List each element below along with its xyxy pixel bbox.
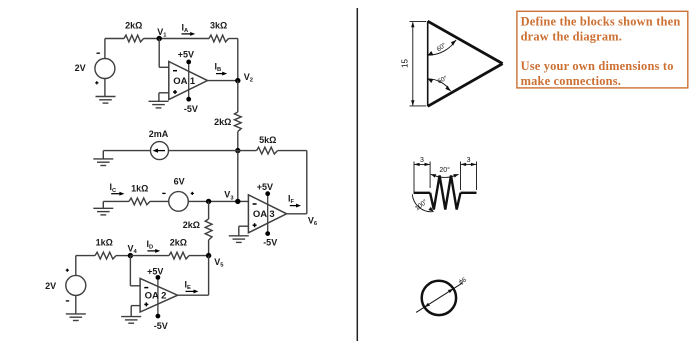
divider line xyxy=(356,8,358,341)
wire V4 to 2k xyxy=(130,255,169,257)
svg-text:OA 1: OA 1 xyxy=(173,76,196,87)
label V1 xyxy=(157,27,167,39)
svg-text:2kΩ: 2kΩ xyxy=(125,21,142,31)
dimension extension lines right 3 xyxy=(461,162,477,191)
circle block xyxy=(422,281,456,315)
current label I_E xyxy=(185,279,192,291)
voltage source 2V (top) xyxy=(95,59,115,79)
minus sign of 2V top source xyxy=(97,52,100,54)
svg-text:+5V: +5V xyxy=(178,49,194,59)
wire OA2 + input to ground xyxy=(131,306,140,317)
triangle block left edge xyxy=(427,21,429,106)
voltage source 6V xyxy=(169,192,189,212)
label V2 xyxy=(244,72,253,84)
junction node (2k/5k/2mA) xyxy=(235,148,240,153)
label V3 xyxy=(224,190,234,202)
minus sign of 6V source xyxy=(162,192,165,194)
ground under 2V bottom source xyxy=(66,314,86,321)
svg-text:OA 2: OA 2 xyxy=(145,291,167,302)
wire 3k to corner xyxy=(229,38,238,40)
label 1k&#937; (IC row) xyxy=(131,183,148,193)
current arrow I_B xyxy=(216,72,227,76)
svg-text:Use your own dimensions to: Use your own dimensions to xyxy=(521,59,674,73)
wire 1k to V4 xyxy=(116,255,130,257)
+5V/-5V supply line of OA1 xyxy=(188,62,190,99)
dimension extension line bottom (triangle) xyxy=(410,105,427,107)
wire OA1 + input to ground xyxy=(159,93,169,102)
resistor 3k&#937; xyxy=(209,35,229,42)
svg-text:2kΩ: 2kΩ xyxy=(183,220,200,230)
label 2V (top) xyxy=(75,63,86,73)
svg-text:5kΩ: 5kΩ xyxy=(259,135,276,145)
op-amp OA1 xyxy=(169,62,208,100)
dimension label 15 xyxy=(401,59,410,68)
-5V pin dot of OA1 xyxy=(186,97,191,102)
label OA 1 xyxy=(173,76,196,87)
svg-text:-5V: -5V xyxy=(184,104,198,114)
+5V pin dot of OA3 xyxy=(265,191,270,196)
svg-text:2V: 2V xyxy=(75,63,86,73)
label 2mA xyxy=(149,129,169,139)
instruction text xyxy=(521,14,681,88)
ground at OA3 + input xyxy=(229,236,249,243)
current arrow I_D xyxy=(147,249,160,253)
label 2V (bottom) xyxy=(45,281,56,291)
wire V1 down to OA1 inverting input xyxy=(159,39,169,68)
current label I_C xyxy=(110,182,118,194)
label V6 xyxy=(308,215,318,227)
node V2 xyxy=(235,78,240,83)
+5V pin dot of OA2 xyxy=(156,275,161,280)
label +5V of OA1 xyxy=(178,49,194,59)
wire IC ground to 1k xyxy=(103,201,129,208)
wire top-left from 2V source to resistor 2k xyxy=(105,38,124,40)
plus sign of 6V source xyxy=(191,192,194,195)
resistor block right lead xyxy=(461,192,477,194)
resistor block zigzag xyxy=(430,176,460,210)
angle label 60 deg (top) xyxy=(435,41,448,53)
wire 2k resistor to junction xyxy=(237,132,239,151)
wire junction down to V3 xyxy=(237,151,239,202)
current label I_A xyxy=(182,23,190,35)
diameter line of circle xyxy=(416,283,462,313)
wire 6V to OA3 input (through junctions) xyxy=(188,200,249,202)
wire V4 down to OA2 inverting input xyxy=(130,256,140,286)
wire OA2 output up to V5 xyxy=(178,256,209,296)
+5V/-5V supply line of OA3 xyxy=(267,194,269,234)
wire 2mA source to ground stem xyxy=(103,151,150,159)
+5V pin dot of OA1 xyxy=(186,60,191,65)
resistor 2k&#937; (top left) xyxy=(124,35,144,42)
op-amp OA3 xyxy=(248,195,286,233)
dimension label 3 (right) xyxy=(467,157,471,164)
svg-text:2V: 2V xyxy=(45,281,56,291)
current label I_B xyxy=(215,61,222,73)
resistor block left lead xyxy=(414,192,430,194)
ground at IC input xyxy=(93,208,113,215)
label 2k&#937; (vertical upper) xyxy=(214,117,231,127)
wire junction down to 2k (lower vertical) xyxy=(208,201,210,219)
triangle block top edge xyxy=(428,21,503,63)
dimension label 3 (left) xyxy=(420,157,424,164)
label +5V of OA3 xyxy=(257,182,273,192)
wire corner down to V6 xyxy=(306,151,308,214)
svg-text:1kΩ: 1kΩ xyxy=(96,238,113,248)
resistor 2k&#937; (vertical, V2 to junction) xyxy=(234,112,241,132)
diameter label phi6 xyxy=(458,276,468,286)
wire junction to 5k xyxy=(238,150,257,152)
angle label 20 deg xyxy=(439,166,450,174)
ground left of 2mA source xyxy=(93,159,113,166)
wire junction to 2mA source xyxy=(169,150,238,152)
label 3k&#937; xyxy=(210,21,227,31)
svg-text:2kΩ: 2kΩ xyxy=(214,117,231,127)
svg-text:make connections.: make connections. xyxy=(521,74,621,88)
label 6V xyxy=(174,176,185,186)
current label I_F xyxy=(288,193,295,205)
diameter arrowhead lower left xyxy=(424,303,430,307)
svg-text:Define the blocks shown then: Define the blocks shown then xyxy=(521,14,681,28)
wire 2k to V5 xyxy=(208,240,210,256)
current label I_D xyxy=(147,239,154,251)
angle arc 100 deg (lead to zigzag) xyxy=(412,194,433,211)
label OA 3 xyxy=(253,209,275,220)
dimension extension lines left 3 xyxy=(414,162,430,195)
current arrow I_C xyxy=(111,192,124,196)
wire OA1 output to V2 xyxy=(208,80,238,82)
node V5 xyxy=(206,253,211,258)
op-amp OA2 xyxy=(140,278,178,312)
current arrow I_A xyxy=(182,32,196,36)
label V4 xyxy=(128,243,138,255)
wire 2V bottom to ground xyxy=(75,295,77,314)
node V3 xyxy=(235,199,240,204)
current arrow I_F xyxy=(290,204,301,208)
wire 2V to top wire xyxy=(104,39,106,59)
svg-text:3kΩ: 3kΩ xyxy=(210,21,227,31)
+5V/-5V supply line of OA2 xyxy=(157,277,159,316)
angle arc 60 deg (top corner) xyxy=(428,40,456,55)
resistor 5k&#937; xyxy=(257,147,278,154)
angle arc 60 deg (bottom corner) xyxy=(428,79,451,91)
label OA 2 xyxy=(145,291,167,302)
svg-text:-5V: -5V xyxy=(154,321,168,331)
current arrow I_E xyxy=(186,289,199,293)
wire 2V source to ground xyxy=(104,79,106,97)
svg-text:+5V: +5V xyxy=(147,266,163,276)
wire 1k to 6V source xyxy=(150,200,169,202)
label +5V of OA2 xyxy=(147,266,163,276)
label V5 xyxy=(214,257,224,269)
voltage source 2V (bottom) xyxy=(66,275,86,295)
dimension line 15 (triangle height) xyxy=(411,22,414,106)
label -5V of OA2 xyxy=(154,321,168,331)
wire 5k to corner xyxy=(278,150,307,152)
svg-text:1kΩ: 1kΩ xyxy=(131,183,148,193)
svg-text:3: 3 xyxy=(467,157,471,164)
label -5V of OA3 xyxy=(263,237,277,247)
label 2k&#937; (top left) xyxy=(125,21,142,31)
svg-text:20°: 20° xyxy=(439,166,450,174)
triangle block bottom edge xyxy=(428,64,503,107)
resistor 2k&#937; (vertical, to V5) xyxy=(205,219,212,240)
dimension line 3 (right lead) xyxy=(461,163,477,166)
wire corner down to V2 xyxy=(237,39,239,81)
label -5V of OA1 xyxy=(184,104,198,114)
minus sign of 2V bottom source xyxy=(66,300,69,302)
wire OA3 + input to ground xyxy=(239,226,249,236)
current source 2mA xyxy=(151,142,169,160)
dimension line 3 (left lead) xyxy=(414,163,430,166)
-5V pin dot of OA2 xyxy=(156,314,161,319)
node V4 xyxy=(128,253,133,258)
svg-text:6V: 6V xyxy=(174,176,185,186)
wire OA3 output to V6 corner xyxy=(287,213,307,215)
plus sign of 2V top source xyxy=(95,81,98,84)
svg-text:15: 15 xyxy=(401,59,410,68)
wire V2 down to 2k resistor xyxy=(237,81,239,112)
wire V1 segment xyxy=(144,38,210,40)
ground at OA2 + input xyxy=(121,317,141,324)
resistor 1k&#937; (IC row) xyxy=(129,198,150,205)
plus sign of 2V bottom source xyxy=(66,269,69,272)
wire 2k to V5 xyxy=(189,255,209,257)
svg-text:draw the diagram.: draw the diagram. xyxy=(521,30,623,44)
svg-text:OA 3: OA 3 xyxy=(253,209,275,220)
label 1k&#937; (V4 row) xyxy=(96,238,113,248)
label 5k&#937; xyxy=(259,135,276,145)
ground at OA1 + input xyxy=(149,101,169,108)
resistor 2k&#937; (V4 row) xyxy=(169,252,189,259)
angle label 100 deg xyxy=(413,197,429,212)
svg-text:+5V: +5V xyxy=(257,182,273,192)
angle label 60 deg (bottom) xyxy=(436,74,449,86)
diameter arrowhead upper right xyxy=(448,289,454,293)
junction node (2k vertical lower) xyxy=(206,199,211,204)
label 2k&#937; (vertical lower) xyxy=(183,220,200,230)
wire 2V bottom to 1k xyxy=(76,256,95,276)
svg-text:3: 3 xyxy=(420,157,424,164)
-5V pin dot of OA3 xyxy=(265,231,270,236)
ground under 2V top source xyxy=(96,97,116,104)
instruction text box border xyxy=(517,11,688,88)
svg-text:2kΩ: 2kΩ xyxy=(170,238,187,248)
dimension extension line top (triangle) xyxy=(410,21,427,23)
label 2k&#937; (V4 row) xyxy=(170,238,187,248)
svg-text:2mA: 2mA xyxy=(149,129,169,139)
resistor 1k&#937; (V4 row) xyxy=(95,252,116,259)
svg-text:-5V: -5V xyxy=(263,237,277,247)
node V1 xyxy=(157,36,162,41)
angle arc 20 deg (zigzag) xyxy=(431,174,459,178)
